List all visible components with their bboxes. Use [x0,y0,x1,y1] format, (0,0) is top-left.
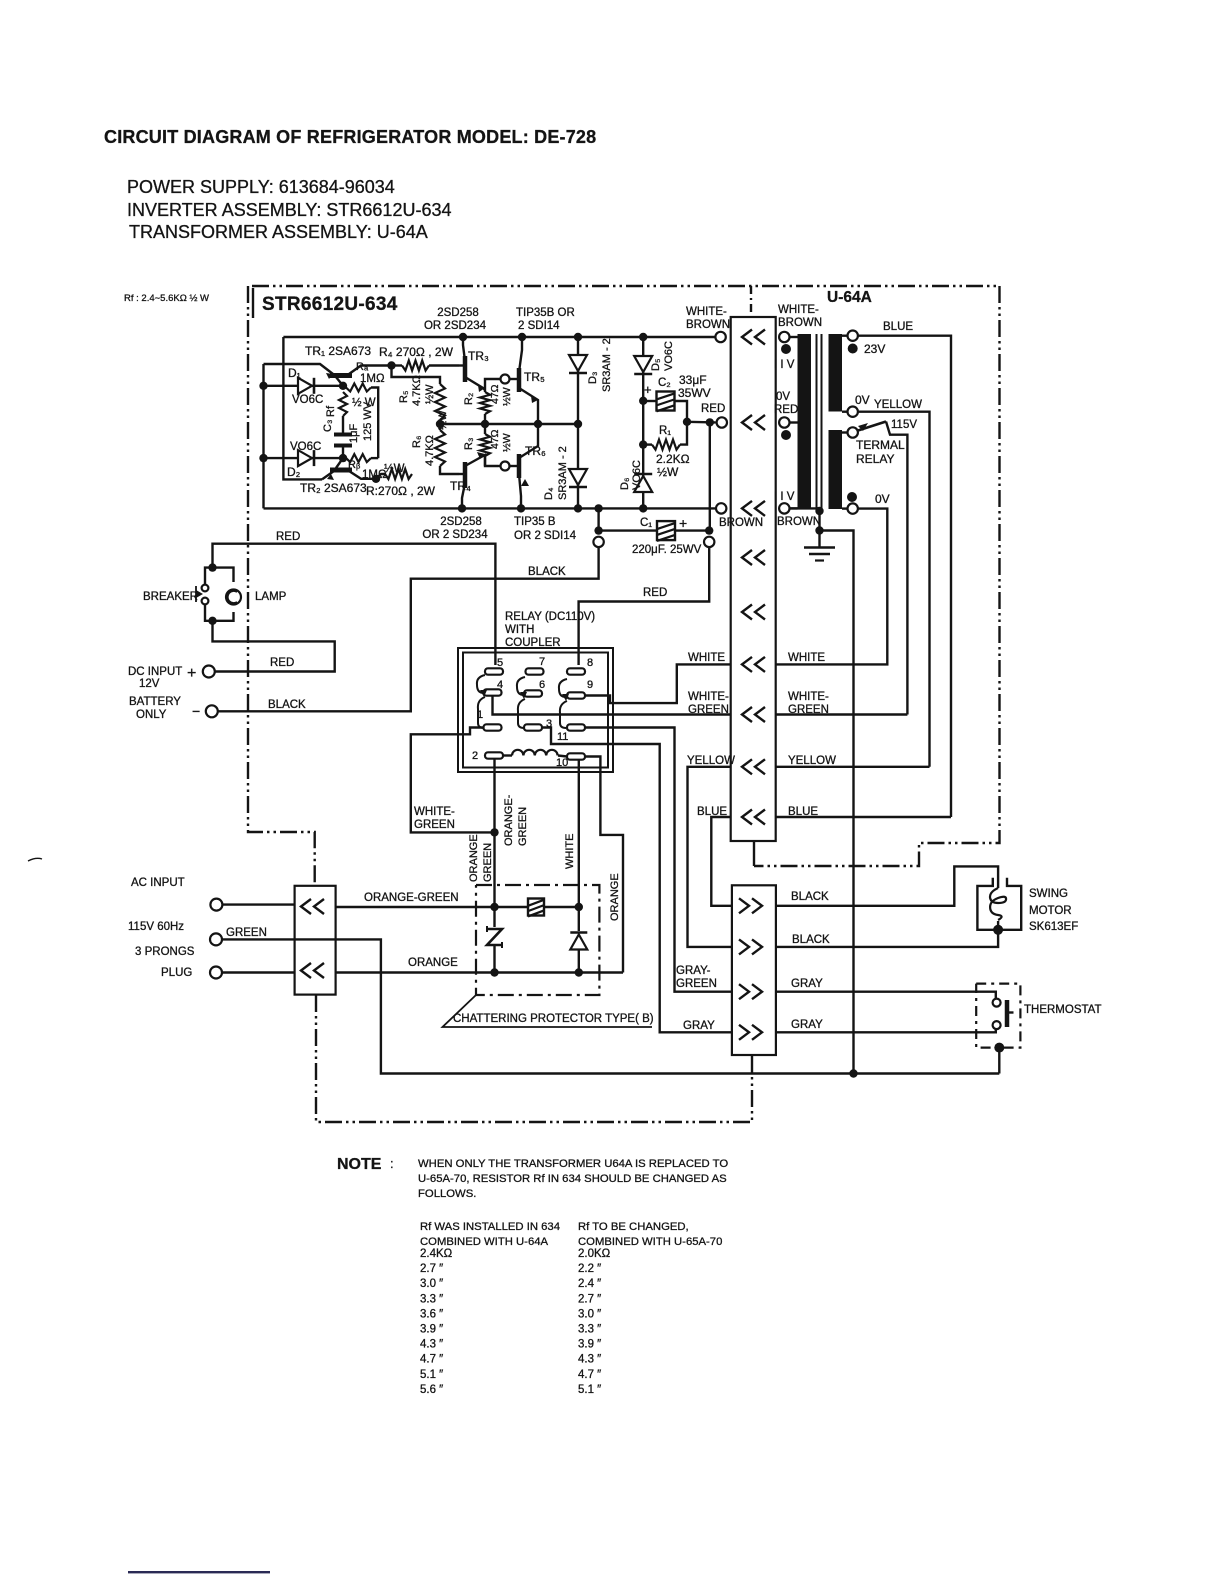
resistor Rf [339,392,347,416]
label 2SD258 OR 2SD234 (top) [424,307,487,332]
svg-text:3.0 ″: 3.0 ″ [420,1278,443,1290]
ac input terminal 2 [210,933,222,945]
breaker symbol [196,563,217,625]
ac chevrons row1 [301,899,324,914]
label GRAY row4 [791,1019,823,1031]
svg-text:SR3AM - 2: SR3AM - 2 [557,446,569,500]
svg-text:GREEN: GREEN [517,807,529,846]
svg-text:3.6 ″: 3.6 ″ [420,1308,443,1320]
label YELLOW (left) [687,755,735,767]
title [104,127,596,147]
svg-text:D₆: D₆ [619,478,631,490]
ac connector box [295,886,336,995]
wire orange from pin10 region [585,757,623,973]
svg-text:5: 5 [497,657,503,669]
svg-text:1MΩ: 1MΩ [360,373,385,385]
svg-text:INVERTER ASSEMBLY: STR6612U-63: INVERTER ASSEMBLY: STR6612U-634 [127,200,451,220]
wire pin2 orange-green down [490,759,498,907]
svg-text:TR₆: TR₆ [525,444,546,458]
label TR4 [450,479,471,493]
svg-text:PLUG: PLUG [161,967,192,979]
secondary stub blue [842,331,858,341]
svg-text:3.3 ″: 3.3 ″ [420,1293,443,1305]
resistor R2 47 ohm [480,390,490,424]
wire bottom rail (brown net) [264,504,722,512]
label RED (top) [276,531,300,543]
svg-text:YELLOW: YELLOW [874,399,922,411]
svg-text:4.7KΩ: 4.7KΩ [411,375,423,406]
label half W (Ra) [352,397,376,409]
svg-text:½W: ½W [437,410,449,430]
capacitor C1 220uF 25WV [594,508,713,541]
svg-text:THERMOSTAT: THERMOSTAT [1024,1004,1102,1016]
svg-text:4.3 ″: 4.3 ″ [578,1354,601,1366]
svg-text:220μF. 25WV: 220μF. 25WV [632,544,702,556]
svg-text:WITH: WITH [505,624,534,636]
svg-text:WHITE-: WHITE- [414,806,455,818]
svg-text:33μF: 33μF [679,373,707,387]
label 0V (bottom) [875,492,890,506]
connector chevrons row 6 [742,657,765,672]
thermostat bottom junction [994,1043,1004,1074]
label BREAKER [143,591,198,603]
wire green net [222,939,999,1077]
label BLUE (transformer) [883,321,913,333]
label 115V 60Hz [128,921,184,933]
label R5 4.7K half W [398,375,436,406]
svg-text:OR 2SD234: OR 2SD234 [424,320,487,332]
label GRAY-GREEN (left) [676,965,717,990]
lower connector chevrons row 3 [739,984,762,999]
boundary bottom segment below AC connector [316,995,752,1122]
svg-text:−: − [192,703,200,719]
label SWING MOTOR SK613EF [1029,888,1078,933]
svg-text:½W: ½W [657,465,679,479]
relay pin 7 [526,656,546,675]
svg-text:R₄ 270Ω , 2W: R₄ 270Ω , 2W [379,345,454,359]
svg-text:VO6C: VO6C [631,460,643,490]
wire red to relay pin 8 [579,547,710,665]
svg-text:GREEN: GREEN [688,704,729,716]
svg-text:LAMP: LAMP [255,591,287,603]
resistor R1 2.2K [639,401,687,471]
svg-text:VO6C: VO6C [663,341,675,371]
resistor R4 270 ohm 2W (top) [387,361,459,371]
wire red net to connector [683,418,716,427]
svg-text:WHITE-: WHITE- [788,691,829,703]
svg-text:BLACK: BLACK [528,566,566,578]
secondary dot 0V [847,492,857,502]
svg-text:3.9 ″: 3.9 ″ [420,1324,443,1336]
svg-text:GRAY-: GRAY- [676,965,711,977]
svg-text:GRAY: GRAY [791,1019,823,1031]
upper connector box [731,317,776,841]
label WHITE-GREEN (left) [688,691,729,716]
resistor R6 4.7K [435,420,459,474]
svg-text:SR3AM - 2: SR3AM - 2 [601,338,613,392]
lamp symbol [213,568,242,621]
label WHITE-BROWN (right) [778,304,822,329]
svg-text:GRAY: GRAY [683,1020,715,1032]
label half W (Rb) [384,463,405,475]
transistor TR2 [322,458,380,483]
svg-text:0V: 0V [776,391,790,403]
svg-text:STR6612U-634: STR6612U-634 [262,294,398,315]
label 11V (bottom) [774,491,795,503]
thermostat contacts [993,999,1014,1030]
svg-text:COMBINED WITH U-64A: COMBINED WITH U-64A [420,1236,549,1248]
svg-text:R₂: R₂ [463,393,475,405]
white-brown right circle [779,332,797,342]
label RED (dc input) [270,657,294,669]
wire mid rail [440,420,582,428]
label D1 [288,366,301,380]
svg-text:RELAY: RELAY [856,452,894,466]
transistor TR1 [264,364,392,386]
wire black net (battery minus) [218,547,599,711]
label CHATTERING PROTECTOR TYPE(B) [443,995,654,1027]
svg-text:BLACK: BLACK [791,891,829,903]
label BLACK (battery) [268,699,306,711]
svg-text:BROWN: BROWN [719,517,763,529]
connector chevrons row 7 [742,707,765,722]
svg-text:R₁: R₁ [659,425,671,437]
lower connector box [732,885,776,1055]
svg-text:2.4KΩ: 2.4KΩ [420,1248,453,1260]
label R3 47ohm half W [463,429,513,452]
svg-text:FOLLOWS.: FOLLOWS. [418,1188,476,1200]
label 1uF (C3) [348,424,360,443]
label 11V (top) [774,359,795,371]
svg-text:U-65A-70, RESISTOR Rf IN 634 S: U-65A-70, RESISTOR Rf IN 634 SHOULD BE C… [418,1173,727,1185]
svg-text:½W: ½W [501,387,513,406]
label 33uF 35WV [678,373,711,400]
diode D2 VO6C [264,450,344,466]
label D6 VO6C [619,460,643,490]
label WHITE-BROWN (left) [686,306,730,331]
relay contact hooks [477,675,569,728]
thermostat box [976,984,1020,1048]
dc input terminal minus [192,703,218,719]
svg-text:½W: ½W [424,384,436,404]
label TR2 2SA673 [300,481,367,495]
label ORANGE-GREEN (right rotated) [503,794,529,846]
svg-text:NOTE: NOTE [337,1156,382,1173]
capacitor C3 1uF 125WV [334,416,352,458]
label DC INPUT 12V [128,666,182,690]
label 0V YELLOW [855,393,922,411]
dc input terminal plus [187,665,215,682]
subtitle inverter assembly [127,200,451,220]
note table header col2 [578,1221,722,1248]
wire orange net [336,968,623,976]
svg-text:C₁: C₁ [640,517,652,529]
diode D5 VO6C [634,337,652,401]
svg-text:47Ω: 47Ω [489,429,501,449]
svg-text:ORANGE-GREEN: ORANGE-GREEN [364,892,459,904]
diode D3 SR3AM-2 [569,337,587,424]
diode D1 VO6C [264,378,344,394]
svg-text:+: + [187,665,196,682]
svg-text:WHITE: WHITE [688,652,725,664]
svg-text:3.3 ″: 3.3 ″ [578,1324,601,1336]
label NOTE [337,1156,394,1173]
connector pin circles below C1 [593,537,714,547]
svg-text:I I V: I I V [774,491,795,503]
label R2 47ohm half W [463,384,513,406]
svg-text:2.2 ″: 2.2 ″ [578,1263,601,1275]
svg-text:2SD258: 2SD258 [440,516,482,528]
label THERMOSTAT [1024,1004,1102,1016]
svg-text:BLACK: BLACK [792,934,830,946]
svg-text:BROWN: BROWN [777,516,821,528]
svg-text:TIP35B OR: TIP35B OR [516,307,575,319]
ac input terminal 3 [210,967,295,979]
svg-text:GRAY: GRAY [791,978,823,990]
svg-text:1μF: 1μF [348,424,360,443]
svg-text:TR₄: TR₄ [450,479,471,493]
resistor R4b 270 ohm 2W (bottom) [376,469,412,479]
label D2 [287,465,301,479]
label VO6C (D2) [290,441,321,453]
label 1M ohm (Rb) [362,469,387,481]
diode D6 VO6C [634,471,652,508]
wire pin3 to gray2 [542,728,732,1033]
label 3 PRONGS [135,946,195,958]
wire blue row to column [776,816,951,818]
wire white net from 0V [776,509,887,665]
label D4 SR3AM-2 [543,446,569,500]
relay pin 5 [485,657,503,675]
red row circles [717,417,798,427]
svg-text:D₄: D₄ [543,487,555,500]
svg-text:MOTOR: MOTOR [1029,905,1072,917]
svg-text:5.1 ″: 5.1 ″ [578,1384,601,1396]
label RED (to relay) [643,587,667,599]
relay pin 1 [477,709,502,731]
svg-text:GREEN: GREEN [226,927,267,939]
svg-text:RED: RED [701,403,725,415]
wire yellow row corner to black2 [688,767,732,947]
svg-text:3.9 ″: 3.9 ″ [578,1339,601,1351]
svg-text:BROWN: BROWN [686,319,730,331]
label R 270ohm 2W (bottom) [366,484,436,498]
label BLUE (left) [697,806,727,818]
label Ra [356,361,369,373]
note table header col1 [420,1221,560,1248]
svg-text:WHITE-: WHITE- [686,306,727,318]
transformer core lines [817,334,822,508]
relay pin 4 [484,679,504,696]
label AC INPUT [131,877,185,889]
label GRAY (left) [683,1020,715,1032]
label BLACK row2 [792,934,830,946]
ac chevrons row2 [301,963,324,978]
svg-text:D₅: D₅ [650,359,662,371]
svg-text:2SD258: 2SD258 [437,307,479,319]
wire yellow net [858,412,930,767]
resistor R3 47 ohm [480,424,498,466]
svg-text:4: 4 [497,679,503,691]
brown row circles [716,503,798,513]
connector chevrons row 2 [742,415,765,430]
svg-text:BLACK: BLACK [268,699,306,711]
wire black1 to swing motor [776,866,998,905]
label C3 [322,420,334,432]
svg-text:125 WV: 125 WV [362,401,374,441]
bottom rule [128,1571,270,1573]
label TIP35B OR 2SDI14 (top) [516,307,575,332]
svg-text:+: + [679,515,687,531]
transformer secondary winding upper [829,334,843,412]
transistor TR5 [485,337,538,424]
connector chevrons row 1 [742,330,765,345]
svg-text:TR₁ 2SA673: TR₁ 2SA673 [305,344,371,358]
relay pin 6 [524,679,545,697]
svg-text:WHITE: WHITE [564,834,576,869]
transformer primary winding bar [798,334,812,510]
svg-text:D₃: D₃ [587,372,599,384]
wire pin9 to white row [585,664,731,703]
resistor Ra 1M ohm [339,382,378,459]
svg-text:VO6C: VO6C [292,394,323,406]
svg-text:5.6 ″: 5.6 ″ [420,1384,443,1396]
svg-text:½W: ½W [501,433,513,452]
svg-text:TERMAL: TERMAL [856,438,905,452]
label BATTERY ONLY [129,696,181,721]
label plus (C1) [679,515,687,531]
svg-text:GREEN: GREEN [482,843,494,882]
protector coil [528,899,544,917]
label WHITE (rotated) [564,834,576,869]
label WHITE (right) [788,652,825,664]
wire pin4 to white-green row [493,696,731,715]
svg-text:Rf: Rf [325,405,337,417]
label VO6C (D1) [292,394,323,406]
svg-text:OR 2 SDI14: OR 2 SDI14 [514,530,577,542]
wire white-green row to relay contact [776,713,907,715]
label 220uF 25WV [632,544,702,556]
separator dash between STR and U-64A [750,286,752,317]
transistor TR3 [459,337,485,392]
lower connector chevrons row 2 [739,939,762,954]
label STR6612U-634 [262,294,398,315]
label LAMP [255,591,287,603]
wire yellow row to column [776,766,930,768]
label TR1 2SA673 [305,344,371,358]
transistor TR6 [498,424,538,508]
svg-text:ORANGE-: ORANGE- [503,794,515,846]
svg-text:TRANSFORMER ASSEMBLY: U-64A: TRANSFORMER ASSEMBLY: U-64A [129,222,428,242]
svg-text:TIP35 B: TIP35 B [514,516,556,528]
label TIP35B OR 2SDI14 (bottom) [514,516,577,542]
note Rf range [124,293,209,304]
relay pin 3 [524,718,552,731]
polarity dot primary top [781,344,791,354]
svg-text:ONLY: ONLY [136,709,167,721]
svg-text:ORANGE: ORANGE [609,873,621,921]
wire brown to ground node [790,507,824,535]
capacitor C2 33uF 35WV [639,392,687,422]
svg-text:WHITE-: WHITE- [778,304,819,316]
wire red top (breaker to relay pin5) [213,544,496,665]
label ORANGE (rotated) [609,873,621,921]
svg-text:0V: 0V [855,393,870,407]
transistor TR4 [459,452,485,508]
svg-text:47Ω: 47Ω [489,384,501,404]
ground symbol [804,531,835,561]
label GREEN [226,927,267,939]
svg-text:35WV: 35WV [678,386,711,400]
lower connector chevrons row 4 [739,1025,762,1040]
swing motor box [977,878,1021,930]
label Rf [325,405,337,417]
svg-text:Rf : 2.4~5.6KΩ ½ W: Rf : 2.4~5.6KΩ ½ W [124,293,209,304]
label TR6 [525,444,546,458]
svg-text:2 SDI14: 2 SDI14 [518,320,560,332]
svg-text:Rf TO BE CHANGED,: Rf TO BE CHANGED, [578,1221,689,1233]
svg-text:TR₅: TR₅ [524,370,545,384]
label TR5 [524,370,545,384]
connector chevrons row 3 [742,501,765,516]
svg-text:RED: RED [774,404,798,416]
wire pin11 to gray1 [585,728,732,992]
secondary stub 0V bottom [842,503,858,513]
svg-text:4.7 ″: 4.7 ″ [420,1354,443,1366]
svg-text:GREEN: GREEN [414,819,455,831]
resistor Rb 1M ohm [339,454,378,462]
label GRAY row3 [791,978,823,990]
wire red net (dc plus) [213,621,335,672]
svg-text:C₃: C₃ [322,420,334,432]
label R1 [659,425,671,437]
svg-text:115V: 115V [891,419,917,431]
label R4 270ohm 2W [379,345,454,359]
label WHITE-GREEN (relay out) [414,806,455,831]
label ORANGE [408,957,458,969]
svg-text:115V 60Hz: 115V 60Hz [128,921,184,933]
connector chevrons row 4 [742,550,765,565]
termal relay arm [858,422,907,715]
svg-text:CHATTERING PROTECTOR TYPE( B: CHATTERING PROTECTOR TYPE( B) [453,1013,654,1025]
svg-text:10: 10 [556,757,568,769]
svg-text:GREEN: GREEN [676,978,717,990]
note paragraph [418,1158,728,1200]
label BLUE (right) [788,806,818,818]
chattering protector box [476,885,599,995]
svg-text:AC INPUT: AC INPUT [131,877,185,889]
label C1 [640,517,652,529]
label RED (inverter) [701,403,725,415]
wire TR1 emitter vertical [259,364,267,508]
connector chevrons row 8 [742,759,765,774]
relay U2 outer box [458,648,613,772]
svg-text:R₆: R₆ [411,436,423,448]
svg-text:BATTERY: BATTERY [129,696,181,708]
lower connector chevrons row 1 [739,898,762,913]
svg-text:RED: RED [276,531,300,543]
svg-text:D₂: D₂ [287,465,301,479]
wire orange-green net [336,903,583,911]
secondary stub 0V yellow [842,407,858,417]
ac input terminal 1 [210,899,294,911]
svg-text:Rₐ: Rₐ [356,361,369,373]
svg-text:WHEN ONLY THE TRANSFORMER U64A: WHEN ONLY THE TRANSFORMER U64A IS REPLAC… [418,1158,728,1170]
svg-text:VO6C: VO6C [290,441,321,453]
svg-text:COMBINED WITH U-65A-70: COMBINED WITH U-65A-70 [578,1236,722,1248]
svg-text:ORANGE: ORANGE [468,834,480,882]
svg-text:12V: 12V [139,678,160,690]
